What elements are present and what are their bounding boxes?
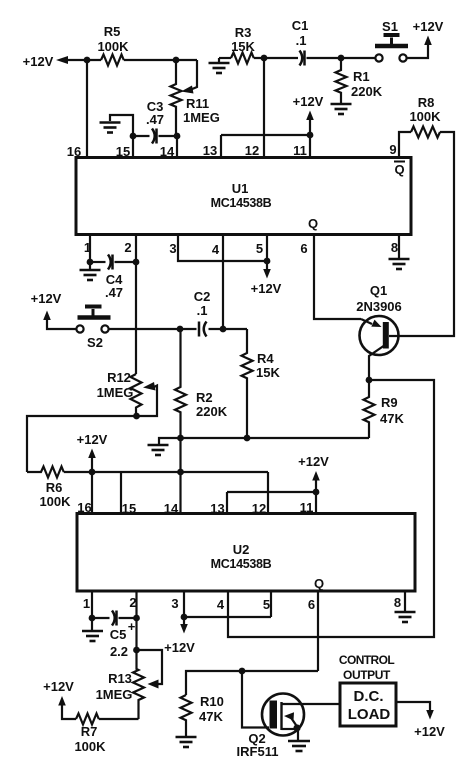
wire Q2 source (282, 728, 298, 730)
svg-text:1MEG: 1MEG (96, 687, 133, 702)
wire U1 pin 9 to R8 (399, 132, 411, 158)
svg-text:+12V: +12V (251, 281, 282, 296)
svg-text:5: 5 (263, 597, 270, 612)
wire U2 pin13 to pin11 tie (227, 491, 316, 493)
arrow +12V at R6 (88, 449, 96, 459)
node C4 right pin2 (133, 259, 140, 266)
wire U2 pin 13 (226, 492, 228, 514)
wire U1 pin 13 (220, 135, 222, 158)
node R3/pin12 junction (261, 55, 268, 62)
svg-text:2: 2 (124, 240, 131, 255)
svg-text:Q: Q (308, 216, 318, 231)
wire load output to +12V (396, 702, 430, 710)
node bus A R4 (244, 435, 251, 442)
node R6 +12V pin16 (89, 469, 96, 476)
wire S2 to C2 (109, 328, 197, 330)
arrow +12V at R7 (58, 696, 66, 706)
resistor R10 (181, 695, 192, 736)
arrow +12V left top (56, 56, 68, 64)
wire U2 pin 1 (91, 591, 93, 618)
resistor R9 (364, 380, 375, 438)
node C2 right pin4 (220, 326, 227, 333)
capacitor C1 (300, 51, 305, 66)
arrow +12V down at load (426, 710, 434, 720)
wire C3 to pin14 (159, 135, 178, 137)
svg-text:.1: .1 (296, 33, 307, 48)
svg-text:4: 4 (212, 242, 220, 257)
IC U1 MC14538B box (76, 158, 411, 235)
resistor R3 (231, 53, 254, 64)
svg-text:Q: Q (394, 162, 404, 177)
svg-text:2.2: 2.2 (110, 644, 128, 659)
wire U2 pin 11 (315, 492, 317, 514)
wire S1 to +12V arrow (407, 45, 429, 58)
svg-text:12: 12 (252, 501, 266, 516)
svg-text:S2: S2 (87, 335, 103, 350)
resistor R8 (411, 127, 440, 138)
wire R8 to Q1 base (389, 132, 454, 336)
svg-text:4: 4 (217, 597, 225, 612)
ground U1 pin 8 (398, 235, 400, 259)
ground R1 (331, 104, 352, 114)
IC U2 MC14538B box (77, 514, 415, 592)
svg-text:+12V: +12V (414, 724, 445, 739)
arrow +12V at S2 (43, 311, 51, 321)
arrow +12V to U1 pin11 (309, 120, 311, 135)
svg-text:C5: C5 (110, 627, 127, 642)
transistor Q1 2N3906 (360, 316, 399, 355)
potentiometer R12 body (131, 374, 142, 416)
wire R6 to U2 bus B (64, 471, 268, 473)
svg-text:R8: R8 (418, 95, 435, 110)
wire gate bus (186, 671, 318, 695)
svg-text:11: 11 (293, 143, 307, 158)
svg-text:11: 11 (300, 500, 314, 515)
svg-text:R3: R3 (235, 25, 252, 40)
wire U2 pin 12 (267, 472, 269, 514)
wire U2 pin 16 (91, 472, 93, 514)
svg-text:S1: S1 (382, 19, 398, 34)
wire Q2 drain to load (282, 703, 341, 705)
svg-text:+: + (128, 619, 136, 634)
arrow Q2 body diode (291, 717, 297, 725)
svg-text:R6: R6 (46, 480, 63, 495)
svg-text:2: 2 (129, 595, 136, 610)
svg-text:+12V: +12V (293, 94, 324, 109)
svg-text:D.C.: D.C. (354, 688, 384, 705)
ground R3 left (218, 58, 220, 62)
node R13 top (133, 647, 140, 654)
svg-text:+12V: +12V (23, 54, 54, 69)
node Q1 collector R9 (366, 377, 373, 384)
switch S2 contacts (76, 325, 83, 332)
wire R3 to C1 (254, 57, 298, 59)
wire U2 pin3 to pin5 (184, 616, 271, 618)
svg-text:R10: R10 (200, 694, 224, 709)
arrow +12V at S1 (424, 36, 432, 46)
switch S1 contacts (375, 54, 382, 61)
svg-text:15: 15 (116, 144, 130, 159)
svg-text:R12: R12 (107, 370, 131, 385)
capacitor C2 (199, 322, 207, 337)
wire U1 pin 5 (266, 235, 268, 262)
node Q2 source (293, 724, 300, 731)
svg-text:R13: R13 (108, 671, 132, 686)
svg-text:13: 13 (203, 143, 217, 158)
svg-text:LOAD: LOAD (348, 706, 391, 723)
node C4 left (87, 259, 94, 266)
wire U1 pin 1 (89, 235, 91, 263)
wire C3 link pin15 to pin14 (133, 135, 150, 137)
ground U2 pin 1 (91, 618, 93, 630)
svg-text:C2: C2 (194, 289, 211, 304)
svg-text:100K: 100K (74, 739, 106, 754)
resistor R2 (175, 329, 186, 514)
wire U1 pin 6 to Q1 emitter (314, 235, 361, 320)
transistor Q2 IRF511 (262, 694, 304, 736)
capacitor C4 (90, 261, 106, 263)
svg-text:1: 1 (84, 240, 91, 255)
wire U1 pin 16 (86, 60, 88, 158)
svg-text:+12V: +12V (43, 679, 74, 694)
svg-text:U1: U1 (232, 181, 249, 196)
arrow R12 wiper (143, 382, 156, 391)
ground bus A (148, 445, 169, 455)
capacitor C5 (92, 617, 110, 619)
resistor R5 (101, 55, 124, 66)
svg-text:15K: 15K (256, 365, 280, 380)
svg-text:MC14538B: MC14538B (211, 196, 272, 210)
svg-text:Q: Q (314, 576, 324, 591)
wire R12 wiper loop (137, 386, 158, 417)
svg-text:14: 14 (164, 501, 179, 516)
resistor R7 (76, 714, 99, 725)
node U1 pin5 +12V (264, 258, 271, 265)
wire C1 to S1 (307, 57, 376, 59)
overbar of Q-bar U1 (394, 161, 405, 163)
arrow +12V down at U1 pin5 (266, 261, 268, 269)
wire C2 to R4 corner (209, 328, 248, 330)
resistor R6 (27, 467, 64, 478)
node +12V pin11 junction (307, 132, 314, 139)
wire U2 pin 5 (270, 591, 272, 617)
resistor R1 (336, 58, 347, 103)
wire ground bus A (159, 438, 369, 444)
svg-text:6: 6 (300, 241, 307, 256)
svg-text:16: 16 (77, 500, 91, 515)
ground Q2 source (297, 728, 299, 740)
svg-text:1: 1 (83, 596, 90, 611)
svg-text:CONTROL: CONTROL (339, 653, 394, 667)
svg-text:220K: 220K (196, 404, 228, 419)
svg-text:+12V: +12V (77, 432, 108, 447)
svg-text:R1: R1 (353, 69, 370, 84)
svg-text:15: 15 (122, 501, 136, 516)
svg-text:.1: .1 (197, 303, 208, 318)
switch S1 plunger (375, 44, 408, 49)
arrow +12V to U2 pin11 (312, 471, 320, 481)
svg-text:+12V: +12V (298, 454, 329, 469)
svg-text:IRF511: IRF511 (237, 744, 279, 759)
svg-text:6: 6 (308, 597, 315, 612)
svg-text:47K: 47K (380, 411, 404, 426)
svg-text:100K: 100K (409, 109, 441, 124)
node U2 pin11 +12V (313, 489, 320, 496)
ground U1 pin 1 (89, 262, 91, 269)
svg-text:.47: .47 (105, 285, 123, 300)
potentiometer R11 body (171, 60, 182, 136)
svg-text:.47: .47 (146, 112, 164, 127)
node C5 left (89, 615, 96, 622)
node bus B R2 line (177, 469, 184, 476)
arrow +12V down at U2 pin3 (183, 617, 185, 624)
svg-text:3: 3 (169, 241, 176, 256)
wire R12 to R6 (27, 416, 137, 472)
svg-text:+12V: +12V (164, 640, 195, 655)
svg-text:R4: R4 (257, 351, 274, 366)
svg-text:14: 14 (160, 144, 175, 159)
node C5 right pin2 (133, 615, 140, 622)
wire U1 pin 3 to pin5 node (178, 235, 267, 262)
svg-text:2N3906: 2N3906 (356, 299, 402, 314)
wire R11 wiper loop (191, 60, 197, 90)
wire U1 pin 4 to C2 node (222, 235, 224, 330)
wire U1 pin13 to pin11 tie (221, 134, 310, 136)
ground C3 (100, 123, 121, 133)
potentiometer R13 body (133, 650, 144, 719)
node C2 left R2 junction (177, 326, 184, 333)
svg-text:MC14538B: MC14538B (211, 557, 272, 571)
node pin16 U1 junction (84, 57, 91, 64)
wire U1 pin 2 down to R12 (135, 235, 137, 375)
svg-text:5: 5 (256, 241, 263, 256)
svg-text:1MEG: 1MEG (183, 110, 220, 125)
svg-text:12: 12 (245, 143, 259, 158)
svg-text:13: 13 (210, 501, 224, 516)
svg-text:9: 9 (389, 142, 396, 157)
wire +12V feed to R5 (66, 59, 101, 61)
node U2 pin3 +12V (181, 614, 188, 621)
svg-text:+12V: +12V (31, 291, 62, 306)
wire R13 wiper loop (137, 650, 163, 684)
wire U1 pin 14 (176, 136, 178, 158)
svg-text:R7: R7 (81, 724, 98, 739)
node C3 right pin14 (174, 133, 181, 140)
wire gate tap to Q2 (242, 671, 269, 728)
node C1/R1/S1 junction (338, 55, 345, 62)
wire U1 pin 11 (309, 135, 311, 158)
node bus A R2 (177, 435, 184, 442)
wire U1 pin 12 (263, 58, 265, 158)
wire U2 pin 6 down (317, 591, 319, 671)
node R12 bottom (133, 413, 140, 420)
wire R5 to R11 node (124, 59, 197, 61)
svg-text:U2: U2 (233, 542, 250, 557)
svg-text:100K: 100K (97, 39, 129, 54)
svg-text:16: 16 (67, 144, 81, 159)
wire U1 pin 15 with ground tap (110, 115, 133, 158)
ground R10 (176, 737, 197, 747)
svg-text:15K: 15K (231, 39, 255, 54)
wire ground to R3 (219, 57, 231, 59)
svg-text:+12V: +12V (413, 19, 444, 34)
arrow R13 wiper (148, 680, 159, 689)
svg-text:47K: 47K (199, 709, 223, 724)
wire U2 pin 15 (120, 472, 122, 514)
node gate tap (239, 668, 246, 675)
capacitor C3 (152, 129, 157, 144)
svg-text:1MEG: 1MEG (97, 385, 134, 400)
svg-text:R9: R9 (381, 395, 398, 410)
wire R7 to R13 (99, 718, 139, 720)
resistor R4 (242, 329, 253, 438)
svg-text:R2: R2 (196, 390, 213, 405)
node R5/R11 junction (173, 57, 180, 64)
svg-text:8: 8 (391, 240, 398, 255)
svg-text:100K: 100K (39, 494, 71, 509)
switch S2 plunger (78, 315, 111, 320)
node C3 left pin15 (130, 133, 137, 140)
arrow R11 wiper (181, 86, 194, 94)
wire U2 pin 3 node (183, 591, 185, 617)
svg-text:OUTPUT: OUTPUT (343, 668, 391, 682)
wire U2 pin 2 down to R13 (135, 591, 137, 650)
wire Q1 collector to U2 pin4 loop (228, 380, 434, 637)
svg-text:Q1: Q1 (370, 283, 387, 298)
svg-text:R5: R5 (104, 24, 121, 39)
box D.C. LOAD (340, 683, 396, 726)
svg-text:C1: C1 (292, 18, 309, 33)
svg-text:220K: 220K (351, 84, 383, 99)
ground U2 pin 8 (404, 591, 406, 611)
svg-text:8: 8 (394, 595, 401, 610)
svg-text:R11: R11 (186, 96, 209, 111)
svg-text:3: 3 (171, 596, 178, 611)
